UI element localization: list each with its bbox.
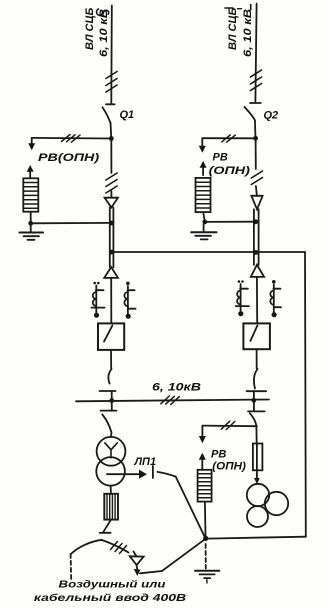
disconnector Q2 [250,102,261,104]
wire box to switch [110,350,112,369]
wire arrester node to main line [31,222,112,224]
wire: tap to surge arrester PB(OPN) right top [202,137,255,139]
wire: incoming overhead line left [110,6,113,104]
wire below Q2 [254,120,257,138]
flexible lead with break marks [102,540,129,553]
node on bus left [109,398,114,403]
wire down from LV device [104,520,112,532]
svg-text:ВЛ СЦБ: ВЛ СЦБ [227,7,239,50]
LV device (vert hatched box) [104,494,118,520]
current transformer (left of pair) [92,282,105,318]
current transformer (right of pair) [124,282,135,319]
svg-text:Q1: Q1 [120,109,135,121]
400V input switch blade [71,540,102,554]
disconnector above bus left [108,369,111,384]
cable run (double line) right [253,209,255,265]
node on right cable (arrester line) [253,219,258,224]
transformer T1 (two circles) [97,437,126,466]
filled arrow into node [136,565,139,570]
dashed wire to ground [205,544,207,569]
current transformer (right of right pair) [270,280,281,317]
current transformer (left of right pair) [236,280,249,316]
arrow down [201,138,203,146]
circuit breaker cell (box) right [243,323,270,349]
wire: incoming overhead line right [255,4,256,102]
scan fragment top right [225,7,233,9]
three-winding transformer T2 [247,484,269,506]
node on cable (ring main line) [109,250,114,255]
wire below termination right [256,277,258,323]
disconnector Q1 [106,103,115,105]
switch on LP1 [152,466,154,478]
wire arrester to node [30,212,32,224]
svg-text:Q2: Q2 [264,110,279,122]
svg-text:6, 10кВ: 6, 10кВ [152,381,201,393]
break marks [221,421,235,429]
wire arrester node to main line right [205,221,256,223]
dashed stub to caption [70,554,73,581]
cable run (double line) left [109,208,111,268]
scan fragment top left [97,9,103,15]
arrow up (from arrester) [29,167,31,178]
svg-text:РВ(ОПН): РВ(ОПН) [38,151,99,164]
node arrester bottom [28,221,33,226]
svg-text:ВЛ СЦБ: ВЛ СЦБ [84,7,96,50]
node on right cable (ring line) [254,250,259,255]
cable termination (down triangle) right [251,196,262,210]
wire below Q1 [110,123,113,139]
wire transformer to LV protection [110,486,112,494]
svg-text:(ОПН): (ОПН) [209,163,250,176]
cable termination (down triangle) left [105,198,118,208]
disconnector below bus left [102,415,111,433]
common ground node [203,536,208,541]
ground (common) [195,570,219,572]
wire box to switch right [256,349,258,368]
surge arrester FV1 (hatched) [23,178,38,211]
break marks on bus [161,396,180,404]
ground (left arrester) [30,223,32,232]
wire below termination [110,278,112,323]
surge arrester FV3 (hatched) [198,470,212,502]
circuit breaker cell (box) left [98,323,124,350]
line break marks (right incoming) [250,70,261,91]
node on bus right [251,398,256,403]
star (Y) winding mark [105,443,118,458]
arrow into transformer [256,470,258,478]
arrow up [202,163,204,175]
cable termination (up triangle) right [251,265,264,277]
wire: main line down [110,139,112,174]
svg-text:ЛП1: ЛП1 [134,456,157,468]
node: Q1 lower junction [109,136,114,141]
surge arrester FV2 (hatched) [196,178,211,212]
ring main wire across to right edge [112,251,306,253]
arrow up [201,460,203,470]
disconnector below bus right [250,413,257,426]
svg-text:6, 10 кВ: 6, 10 кВ [97,9,110,57]
wire: right main line down [255,138,257,169]
break marks on main line [106,173,117,193]
svg-text:(ОПН): (ОПН) [212,461,246,473]
wire arrester to node [203,212,204,220]
line break marks (left incoming) [106,72,117,93]
svg-text:6, 10 кВ: 6, 10 кВ [241,9,254,57]
svg-text:РВ: РВ [213,152,228,164]
node arrester bottom right [202,220,207,225]
tap to PB(OPN) right bottom [202,425,257,428]
node: Q2 lower junction [253,136,258,141]
wire LP1 to ground node [176,477,206,539]
break marks on arrester tap [62,135,81,143]
feeder arrow LP1 [107,473,140,475]
cable termination 400V (open triangle) [134,552,137,557]
disconnector above bus right [254,369,258,389]
svg-text:РВ: РВ [211,449,226,461]
wire arrester to ground node [204,502,207,536]
break marks on right arrester tap [222,135,236,142]
ground (right arrester) [203,224,205,231]
svg-text:кабельный ввод 400В: кабельный ввод 400В [34,591,186,603]
cable termination (up triangle) left [104,267,118,278]
break marks right main [251,171,262,185]
bottom loop wire [207,537,306,539]
fuse F1 [255,426,257,443]
svg-text:Воздушный или: Воздушный или [59,578,167,590]
node on cable (arrester line) [109,221,114,226]
wire 400V to ground node [140,539,205,573]
arrow down (to arrester) [31,138,33,149]
wire: tap to surge arrester PB(OPN) left [32,137,112,140]
arrow down [201,426,203,438]
right edge loop down [304,252,307,537]
